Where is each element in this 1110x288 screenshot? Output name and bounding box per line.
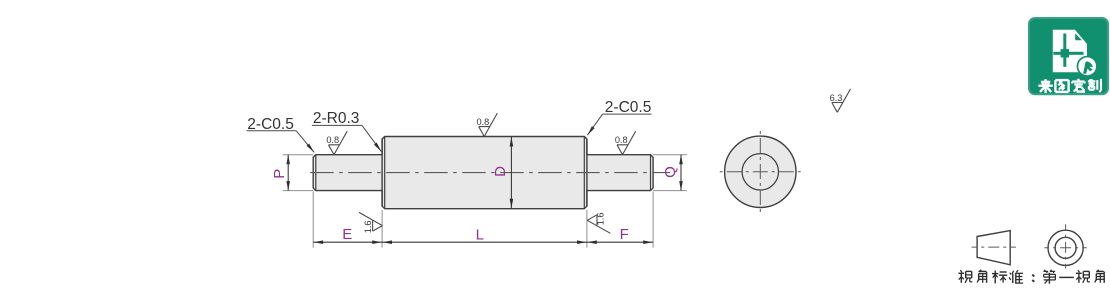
svg-text:L: L — [476, 226, 484, 243]
svg-text:6.3: 6.3 — [830, 93, 843, 103]
svg-text:E: E — [342, 226, 352, 243]
svg-text:1.6: 1.6 — [363, 221, 373, 234]
svg-text:Q: Q — [662, 166, 679, 178]
svg-text:1.6: 1.6 — [595, 213, 605, 226]
svg-text:2-R0.3: 2-R0.3 — [313, 110, 360, 127]
svg-text:0.8: 0.8 — [615, 135, 628, 145]
svg-text:D: D — [492, 166, 509, 177]
svg-text:0.8: 0.8 — [477, 117, 490, 127]
svg-text:F: F — [620, 226, 629, 243]
svg-text:0.8: 0.8 — [326, 135, 339, 145]
svg-text:2-C0.5: 2-C0.5 — [605, 99, 652, 116]
svg-text:P: P — [271, 169, 288, 179]
